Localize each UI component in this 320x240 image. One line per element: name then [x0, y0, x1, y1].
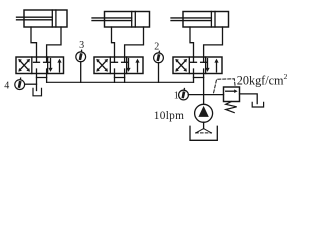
- svg-text:20kgf/cm2: 20kgf/cm2: [237, 72, 288, 87]
- svg-text:2: 2: [154, 42, 159, 53]
- svg-text:4: 4: [4, 80, 9, 91]
- svg-text:1: 1: [174, 90, 179, 101]
- svg-text:10lpm: 10lpm: [154, 110, 184, 122]
- svg-text:3: 3: [79, 40, 84, 51]
